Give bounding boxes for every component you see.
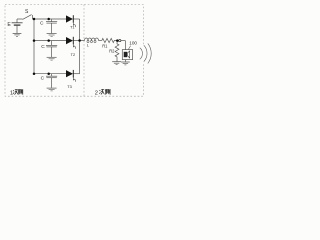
svg-text:E: E xyxy=(7,22,11,28)
svg-text:100: 100 xyxy=(129,41,137,46)
svg-text:C: C xyxy=(41,44,45,50)
svg-text:R2: R2 xyxy=(109,49,115,54)
svg-text:T1: T1 xyxy=(70,24,75,29)
svg-text:R1: R1 xyxy=(102,43,108,48)
svg-text:C: C xyxy=(41,75,45,81)
svg-text:1: 1 xyxy=(10,91,13,97)
svg-text:T3: T3 xyxy=(67,84,72,89)
svg-text:2: 2 xyxy=(95,91,98,97)
svg-text:C: C xyxy=(40,20,44,26)
svg-text:T2: T2 xyxy=(71,52,76,57)
svg-text:L: L xyxy=(87,43,90,48)
svg-text:S: S xyxy=(25,9,29,15)
